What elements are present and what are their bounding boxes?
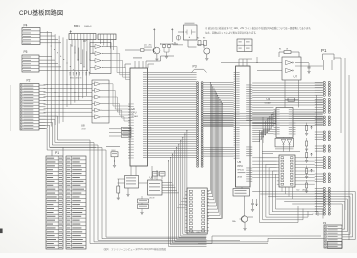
svg-text:LS139: LS139 [149,198,154,200]
svg-text:X1: X1 [174,43,176,45]
svg-text:S-RAM: S-RAM [265,101,272,104]
svg-text:6116: 6116 [197,232,201,234]
svg-text:PPU: PPU [238,164,243,168]
svg-text:P2: P2 [323,221,327,225]
svg-text:R3: R3 [203,38,205,40]
svg-text:LS368: LS368 [81,129,86,131]
svg-text:U8: U8 [81,124,85,128]
svg-text:P2: P2 [27,78,31,82]
svg-text:BM1: BM1 [74,24,80,28]
svg-text:CPU基板回路図: CPU基板回路図 [19,9,63,17]
svg-text:U3: U3 [150,176,154,180]
svg-text:RP2C02: RP2C02 [238,170,244,172]
svg-text:P5: P5 [24,50,28,54]
svg-text:10KΩ×8: 10KΩ×8 [84,25,92,28]
svg-text:R1: R1 [279,49,281,51]
svg-text:R2: R2 [197,38,199,40]
svg-text:U7: U7 [294,75,298,79]
svg-text:BM2 10KΩ×8: BM2 10KΩ×8 [70,76,81,79]
svg-text:P4: P4 [24,24,28,28]
svg-text:U5: U5 [238,160,242,164]
svg-text:P1: P1 [321,48,327,53]
svg-text:P1: P1 [55,151,59,155]
svg-text:〈図1〉 ファミリーコンピュータ(HVC-001)CPU基板: 〈図1〉 ファミリーコンピュータ(HVC-001)CPU基板回路図 [102,247,166,251]
svg-text:CPU: CPU [132,113,137,115]
svg-text:U7: U7 [83,39,87,43]
svg-text:P3: P3 [193,65,197,69]
